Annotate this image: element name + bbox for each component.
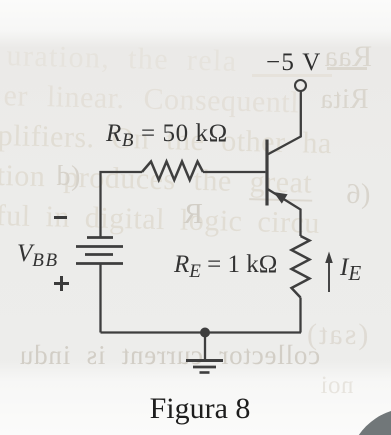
- battery minus sign: [54, 216, 67, 219]
- transistor emitter arrowhead: [274, 192, 288, 204]
- battery plus sign: [54, 282, 69, 285]
- faint underline under -5V: [252, 74, 332, 77]
- mirrored bleed fragment R over line 5: [183, 198, 203, 231]
- resistor RB zigzag: [142, 162, 203, 181]
- wire: battery bottom to ground rail: [99, 264, 101, 333]
- resistor RE zigzag: [292, 236, 310, 298]
- faint text line 1: [6, 39, 238, 79]
- battery VBB plates: [76, 238, 123, 264]
- mirrored bottom bleed line: [19, 340, 320, 371]
- label RE = 1 kOhm: [174, 251, 277, 279]
- transistor Q1 base bar: [265, 140, 268, 206]
- decorative corner circle: [348, 408, 391, 435]
- wire: ground stub: [204, 333, 206, 360]
- label VBB: [17, 240, 59, 268]
- mirrored bleed fragment on line 4 left: [56, 161, 80, 193]
- label -5 V: [266, 49, 322, 77]
- mirrored bleed fragment on line 4 right: [346, 179, 370, 211]
- wire: collector lead to -5V terminal: [268, 92, 301, 155]
- label RB = 50 kOhm: [106, 120, 228, 148]
- faint underline under Raa fragment: [327, 67, 367, 70]
- ground symbol: [186, 361, 223, 373]
- node: ground junction dot: [200, 328, 210, 338]
- faint text line 5: [0, 199, 320, 241]
- label IE: [340, 254, 361, 282]
- faint text line 2: [3, 79, 299, 120]
- caption Figura 8: [140, 392, 260, 426]
- faint text line 3: [0, 119, 332, 161]
- wire: RE bottom lead: [299, 298, 301, 333]
- mirrored (sat) fragment: [305, 318, 368, 352]
- wire: emitter lead: [268, 189, 301, 236]
- faint bottom-right fragment: [320, 372, 353, 400]
- wire: bottom ground rail: [101, 331, 302, 333]
- terminal circle -5V: [295, 80, 306, 91]
- faint text line 4: [0, 159, 313, 201]
- wire: RB right lead to transistor base: [203, 171, 265, 173]
- mirrored bleed fragment right: [320, 84, 369, 116]
- current arrow IE: [325, 252, 333, 293]
- wire: battery top to RB left lead: [101, 172, 143, 238]
- mirrored bleed fragment top right: [324, 40, 372, 74]
